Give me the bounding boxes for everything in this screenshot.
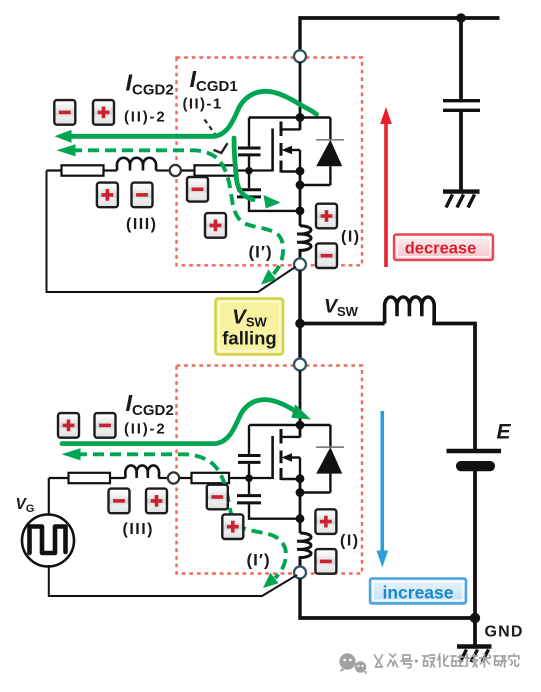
node drain terminal Q1 (open) — [294, 50, 306, 62]
diode D1 cathode bar — [316, 139, 344, 141]
resistor Rg2b — [192, 473, 230, 483]
resistor Rg2a — [69, 473, 111, 483]
wire bus upper segment Q2 — [299, 370, 302, 437]
junction drain node Q2 — [296, 421, 305, 430]
wire Cgs2 upper leg — [248, 478, 250, 494]
dotted boundary box upper module — [177, 58, 363, 266]
wire top rail — [300, 16, 500, 20]
resistor Rg1b — [195, 165, 237, 175]
inductor load L — [385, 297, 435, 324]
wire diode return Q1 — [300, 184, 330, 186]
charge symbol - (Q2 charge -, gate left pair) — [95, 413, 116, 438]
wire bus bottom — [298, 578, 301, 618]
node gate terminal Q1 (open) — [170, 165, 181, 176]
wire inner top rail Q2 — [249, 424, 330, 426]
junction drain node Q1 — [296, 113, 305, 122]
wire gate drive loop lower — [48, 478, 50, 515]
charge symbol + (Q1 charge + at Cgs1) — [205, 213, 226, 238]
wire Vg to return — [49, 565, 297, 596]
junction Cgs node Q1 — [296, 207, 305, 216]
wire gate line Q2 right — [179, 477, 271, 479]
junction source node Q2 — [296, 474, 305, 483]
ground bottom — [457, 647, 492, 663]
charge symbol - (Q2 charge - (I) lower) — [315, 549, 336, 574]
charge symbol + (Q1 charge + (III) left) — [97, 183, 118, 208]
svg-text:(II)-1: (II)-1 — [183, 96, 223, 113]
inductor Ls1 (source inductance) — [297, 226, 311, 259]
svg-text:ICGD1: ICGD1 — [190, 66, 238, 95]
leader dashes to (II)-1 — [205, 120, 218, 138]
wire gate line Q1 mid — [156, 169, 170, 171]
wire gate line Q2 left — [49, 477, 126, 479]
charge symbol + (Q1 charge +, gate left pair) — [93, 100, 114, 125]
current arrowhead Icgd2 lower into drain — [291, 404, 311, 419]
node drain terminal Q2 (open) — [294, 359, 306, 371]
junction top-rail/C-branch — [456, 13, 466, 23]
wire Cgd2 upper leg — [248, 425, 250, 454]
battery E plate long — [447, 449, 502, 453]
junction gate node Q1 — [245, 167, 253, 175]
wire Cgd2 lower leg — [248, 464, 250, 478]
junction Cgs node Q2 — [296, 514, 305, 523]
source Vg square wave glyph — [30, 527, 66, 554]
svg-text:increase: increase — [382, 583, 453, 603]
wire gate line Q1 left — [47, 169, 118, 171]
arrow decrease (red up) — [380, 107, 392, 267]
wire bus below Q1 — [299, 171, 302, 226]
diode D1 — [316, 140, 342, 167]
wire bottom rail — [298, 616, 475, 620]
diode D2 branch upper — [329, 425, 331, 447]
svg-text:(II)-2: (II)-2 — [124, 421, 166, 438]
wire C-branch upper — [459, 18, 463, 99]
battery E plate short — [456, 461, 495, 471]
capacitor Cgd Q1 — [238, 148, 261, 155]
node source terminal Q1 (open) — [294, 258, 306, 270]
transistor Q2 body arrow — [282, 453, 293, 461]
diode D1 branch upper — [329, 118, 331, 141]
diode D2 branch lower — [329, 474, 331, 493]
wire Cgd1 lower leg — [248, 156, 250, 170]
charge symbol - (Q2 charge - (III) left) — [109, 489, 130, 514]
arrow increase (blue down) — [377, 411, 389, 568]
wire gate loop left upper — [47, 171, 296, 293]
capacitor C1 top plate — [443, 99, 480, 102]
svg-text:VSW: VSW — [324, 296, 359, 320]
wire gnd stub — [473, 618, 477, 645]
capacitor Cgd Q2 — [238, 456, 261, 463]
diode D2 cathode bar — [316, 446, 344, 448]
junction diode node Q2 — [296, 488, 305, 497]
svg-text:(III): (III) — [123, 521, 155, 538]
svg-text:ICGD2: ICGD2 — [126, 390, 174, 419]
wire Cgs1 lower leg — [249, 198, 300, 211]
svg-text:(I): (I) — [341, 229, 361, 246]
watermark wechat icon — [339, 653, 367, 675]
wire diode return Q2 — [300, 491, 330, 493]
node source terminal Q2 (open) — [294, 567, 306, 579]
current arrowhead Icgd1 into gate — [264, 195, 281, 209]
diode D2 — [316, 447, 342, 474]
wire bus upper segment — [299, 62, 302, 130]
charge symbol + (Q2 charge + at Cgs2) — [222, 514, 243, 539]
capacitor Cgs Q1 — [237, 190, 261, 197]
label box Vsw falling — [216, 298, 284, 354]
junction Vsw node — [295, 319, 305, 329]
svg-text:decrease: decrease — [405, 240, 477, 258]
charge symbol - (Q1 charge -, gate left pair) — [54, 100, 75, 125]
wire Vsw out — [300, 322, 385, 326]
svg-text:(III): (III) — [126, 216, 158, 233]
junction source node Q1 — [296, 167, 305, 176]
charge symbol - (Q2 charge - at Rg2b) — [207, 485, 228, 510]
wire C-branch lower — [459, 112, 463, 190]
svg-text:GND: GND — [485, 624, 524, 641]
svg-text:falling: falling — [222, 328, 276, 349]
junction gate node Q2 — [245, 474, 253, 482]
wire Cgs1 upper leg — [248, 171, 250, 189]
wire Cgd1 upper leg — [248, 118, 250, 147]
junction diode node Q1 — [296, 181, 305, 190]
transistor Q2 — [273, 429, 300, 480]
wire Cgs2 lower leg — [249, 504, 300, 518]
junction GND node — [470, 613, 480, 623]
inductor Ls2 (source inductance) — [297, 533, 311, 567]
current path I' upper (dashed) — [71, 150, 283, 274]
svg-text:VG: VG — [16, 496, 35, 515]
inductor Lg1 — [117, 158, 156, 171]
svg-text:(I′): (I′) — [249, 243, 273, 262]
current path Icgd2 lower (solid) — [62, 400, 294, 444]
ground top-right — [443, 192, 480, 208]
wire bus below Q2 — [299, 479, 302, 533]
wire gate line Q1 right — [181, 169, 272, 171]
charge symbol + (Q2 charge + (I) upper) — [315, 509, 336, 534]
watermark text 公众号·碳化硅技术研究 — [375, 654, 519, 668]
wire gate line Q2 mid — [158, 477, 167, 479]
svg-text:(I): (I) — [340, 533, 360, 550]
svg-text:(II)-2: (II)-2 — [124, 109, 166, 126]
capacitor Cgs Q2 — [237, 496, 261, 503]
charge symbol + (Q2 charge + (III) right) — [146, 489, 167, 514]
charge symbol - (Q1 charge - (I) lower) — [316, 243, 337, 268]
current path I' lower (dashed) — [76, 454, 286, 578]
svg-text:E: E — [497, 421, 512, 444]
charge symbol - (Q1 charge - at Rg1b) — [187, 177, 208, 202]
wire battery to gnd — [473, 471, 477, 619]
capacitor C1 bottom plate — [443, 109, 480, 112]
label box increase — [370, 579, 466, 604]
transistor Q1 — [273, 122, 300, 173]
wire inner top rail Q1 — [249, 116, 330, 118]
svg-text:ICGD2: ICGD2 — [126, 70, 174, 99]
wire bus mid — [298, 270, 301, 358]
charge symbol - (Q1 charge - (III) right) — [132, 183, 153, 208]
label box decrease — [394, 235, 493, 261]
source Vg (gate driver) — [22, 515, 74, 567]
current arrowhead I' upper left — [57, 144, 76, 156]
wire bus top drop — [298, 16, 301, 50]
current arrowhead Icgd2 upper left — [55, 130, 72, 143]
current arrowhead I' upper end — [261, 269, 276, 284]
node gate terminal Q2 (open) — [168, 472, 179, 483]
current path Icgd2 upper (solid) — [68, 91, 317, 199]
svg-text:(I′): (I′) — [247, 551, 271, 570]
wire load to right branch — [432, 324, 475, 450]
charge symbol + (Q2 charge +, gate left pair) — [58, 413, 79, 438]
current arrowhead I' lower end — [263, 573, 278, 588]
inductor Lg2 — [125, 465, 159, 478]
resistor Rg1a — [62, 165, 104, 175]
charge symbol + (Q1 charge + (I) upper) — [316, 204, 337, 229]
current arrowhead I' lower left — [62, 448, 81, 460]
transistor Q1 body arrow — [282, 146, 293, 154]
dotted boundary box lower module — [177, 366, 363, 574]
leader arrowhead (II)-1 — [214, 143, 228, 153]
diode D1 branch lower — [329, 166, 331, 185]
